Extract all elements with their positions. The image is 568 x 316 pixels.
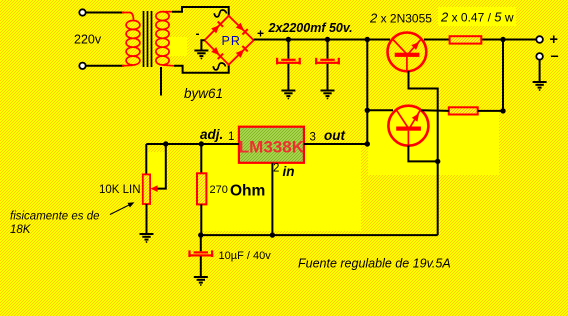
wire R3 bottom <box>200 204 202 235</box>
wire C3 top <box>200 235 202 251</box>
wire C3 bottom <box>200 256 202 276</box>
wire secondary center tap stub <box>160 67 162 96</box>
wire rail down to R2 <box>502 40 504 111</box>
node rail-C1 <box>286 37 291 42</box>
resistor R3 270 Ohm <box>197 173 206 204</box>
ground C3 <box>194 277 208 286</box>
wire C1 top <box>287 40 289 59</box>
wire C1 bottom <box>287 64 289 90</box>
ground potentiometer <box>140 234 154 243</box>
node R3-bus <box>198 232 203 237</box>
wire pot top <box>145 144 147 174</box>
svg-text:2 x 0.47 / 5 w: 2 x 0.47 / 5 w <box>440 10 514 25</box>
transformer T1 secondary winding <box>156 12 174 66</box>
svg-text:1: 1 <box>228 131 234 143</box>
wire C2 top <box>327 40 329 59</box>
wire R2 to rail vertical <box>478 110 503 112</box>
wire in pin2 <box>271 163 273 235</box>
wire Q2 base <box>408 146 437 162</box>
annotation arrow <box>110 202 135 214</box>
wire C2 bottom <box>327 64 329 90</box>
svg-text:fisicamente es de: fisicamente es de <box>10 211 100 223</box>
capacitor C3 10uF <box>188 250 213 257</box>
transformer T1 primary winding <box>122 13 140 66</box>
svg-text:byw61: byw61 <box>184 86 223 101</box>
diode D1 top-left <box>211 25 219 33</box>
bright background patch right of potentiometer <box>147 152 166 189</box>
ground bridge minus <box>194 51 208 60</box>
svg-text:3: 3 <box>310 132 316 144</box>
diode D2 top-right <box>236 23 245 31</box>
svg-text:PR: PR <box>222 34 241 48</box>
bright background patch center <box>201 144 361 231</box>
node V1-out <box>365 141 370 146</box>
wire Q2 emitter to R2 <box>421 109 449 112</box>
svg-text:2: 2 <box>273 163 279 175</box>
resistor R1 0.47 <box>450 36 482 43</box>
wire V1 rail to out <box>366 40 368 145</box>
svg-text:10K LIN: 10K LIN <box>99 184 141 196</box>
transistor Q1 2N3055 <box>388 33 427 72</box>
terminal 220v top <box>79 9 85 15</box>
wire secondary top to bridge <box>172 7 229 16</box>
wire primary bottom <box>86 65 124 67</box>
wire bottom bus <box>201 234 438 236</box>
svg-text:10µF / 40v: 10µF / 40v <box>219 250 272 262</box>
bright background patch near transformer <box>167 37 187 56</box>
svg-text:2x2200mf 50v.: 2x2200mf 50v. <box>268 21 353 35</box>
wire secondary bottom to bridge <box>174 65 229 73</box>
AC tilde bottom <box>213 63 225 70</box>
wire wiper <box>154 144 166 189</box>
transformer T1 core <box>144 11 152 67</box>
ground C2 <box>321 91 335 100</box>
wiper arrow <box>151 185 158 192</box>
svg-text:adj.: adj. <box>200 127 223 142</box>
ground output <box>533 82 547 91</box>
svg-text:Fuente regulable de 19v.5A: Fuente regulable de 19v.5A <box>298 257 451 271</box>
wire adj <box>146 143 239 145</box>
wire minus to ground <box>539 60 541 82</box>
transistor Q2 2N3055 <box>388 106 428 146</box>
wire Q2 collector <box>367 109 393 111</box>
node V1-Q2 collector <box>365 108 370 113</box>
svg-text:270: 270 <box>210 184 228 196</box>
svg-text:2 x 2N3055: 2 x 2N3055 <box>369 11 432 26</box>
diode D3 bottom-left <box>211 47 219 55</box>
svg-text:220v: 220v <box>74 33 102 47</box>
wire pot bottom <box>146 204 148 234</box>
ground C1 <box>281 91 295 100</box>
node adj-wiper <box>163 141 168 146</box>
svg-text:out: out <box>324 128 345 143</box>
terminal output minus <box>536 53 543 60</box>
bright background patch right of Q2 <box>368 110 499 175</box>
svg-text:-: - <box>196 27 200 41</box>
svg-text:–: – <box>551 49 559 65</box>
terminal output plus <box>536 36 543 43</box>
wire R3 top <box>200 144 202 173</box>
AC tilde top <box>214 10 226 17</box>
wire primary top <box>86 12 124 14</box>
wire bridge minus to ground <box>201 40 204 49</box>
node rail-R1 out <box>500 37 505 42</box>
svg-text:+: + <box>257 27 264 41</box>
node base bus <box>435 159 440 164</box>
svg-text:+: + <box>550 32 558 48</box>
svg-text:Ohm: Ohm <box>230 183 265 200</box>
svg-text:18K: 18K <box>10 224 32 236</box>
wire Q1 base <box>409 71 438 235</box>
resistor R2 0.47 <box>449 107 478 114</box>
node pin2-bus <box>270 232 275 237</box>
bridge rectifier PR <box>205 16 254 65</box>
capacitor C1 2200mf <box>276 58 301 65</box>
node adj-R3 <box>199 141 204 146</box>
node R2 right <box>500 108 505 113</box>
potentiometer P1 10K <box>143 174 150 204</box>
svg-text:LM338K: LM338K <box>239 138 305 157</box>
terminal 220v bottom <box>79 63 85 69</box>
regulator U1 LM338K <box>239 127 305 163</box>
svg-text:in: in <box>283 164 295 179</box>
node rail-C2 <box>325 37 330 42</box>
diode D4 bottom-right <box>236 50 244 58</box>
capacitor C2 2200mf <box>315 58 340 65</box>
node rail-V1 <box>365 37 370 42</box>
wire out pin3 <box>304 143 367 145</box>
bright background patch behind 0.47 label <box>438 7 516 26</box>
wire DC rail <box>254 39 390 41</box>
